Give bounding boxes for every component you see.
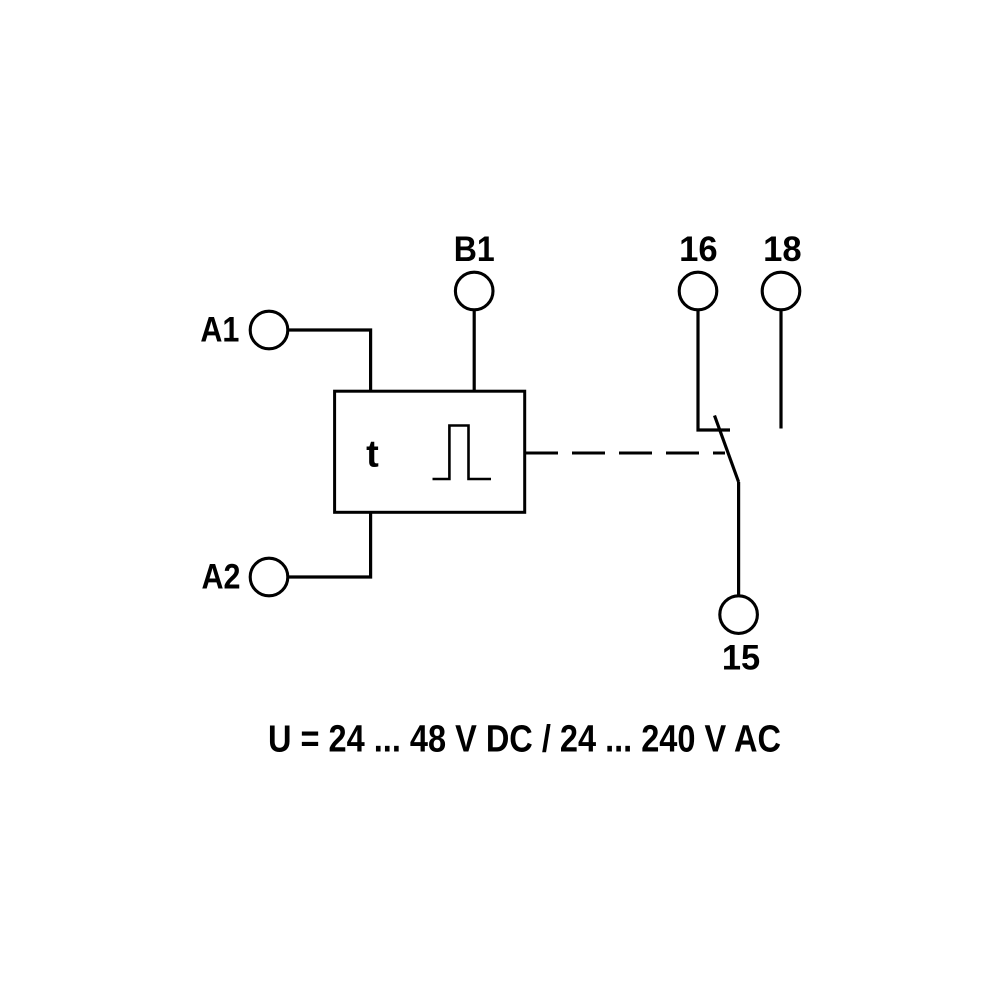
dashed actuation link from timer box to contact xyxy=(525,452,725,455)
terminal circle B1 xyxy=(455,272,493,310)
svg-text:t: t xyxy=(366,434,379,476)
terminal circle 15 xyxy=(720,596,758,634)
wire A2 to timer box bottom xyxy=(288,511,371,577)
terminal circle 18 xyxy=(762,272,800,310)
svg-text:16: 16 xyxy=(679,229,718,269)
svg-text:U = 24 ... 48 V DC / 24 ... 24: U = 24 ... 48 V DC / 24 ... 240 V AC xyxy=(268,719,781,761)
wire contact to terminal 15 xyxy=(737,482,740,596)
moving contact blade xyxy=(715,416,739,483)
terminal circle A2 xyxy=(250,558,288,596)
pulse symbol inside timer box xyxy=(433,426,492,480)
terminal circle A1 xyxy=(250,311,288,349)
wire 18 open contact end xyxy=(779,310,782,429)
svg-text:15: 15 xyxy=(722,638,760,678)
svg-text:A1: A1 xyxy=(200,310,239,350)
svg-text:A2: A2 xyxy=(202,557,241,597)
wire A1 to timer box top xyxy=(288,330,371,392)
timer box U1 xyxy=(335,391,525,512)
svg-text:B1: B1 xyxy=(454,229,495,269)
svg-text:18: 18 xyxy=(763,229,802,269)
terminal circle 16 xyxy=(679,272,717,310)
wire B1 to timer box top xyxy=(473,310,476,392)
wire 16 down to fixed contact with foot xyxy=(698,310,730,430)
